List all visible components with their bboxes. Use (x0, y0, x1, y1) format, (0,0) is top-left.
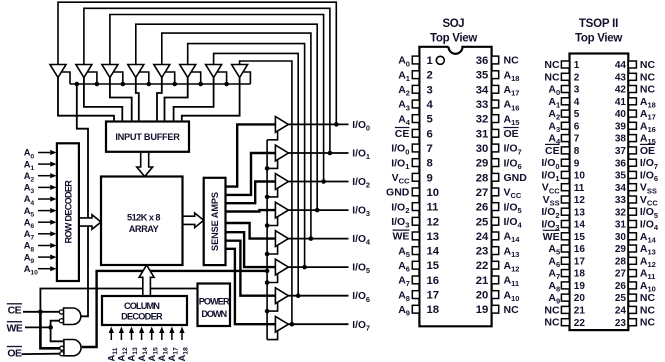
svg-text:35: 35 (476, 70, 489, 82)
svg-text:4: 4 (427, 99, 434, 111)
svg-text:OE: OE (504, 128, 519, 140)
svg-text:NC: NC (544, 71, 560, 83)
svg-text:36: 36 (476, 55, 489, 67)
svg-text:31: 31 (476, 128, 489, 140)
svg-text:21: 21 (476, 275, 489, 287)
svg-text:25: 25 (615, 293, 627, 304)
svg-text:10: 10 (427, 187, 440, 199)
svg-text:23: 23 (615, 318, 627, 329)
svg-text:CE: CE (545, 145, 560, 157)
svg-text:5: 5 (427, 114, 433, 126)
svg-text:DOWN: DOWN (201, 309, 227, 319)
svg-text:5: 5 (574, 109, 580, 120)
svg-text:NC: NC (640, 84, 656, 96)
svg-text:33: 33 (476, 99, 489, 111)
svg-text:NC: NC (640, 304, 656, 316)
svg-text:42: 42 (615, 85, 627, 96)
svg-text:NC: NC (640, 59, 656, 71)
svg-text:TSOP II: TSOP II (579, 18, 618, 30)
svg-text:COLUMN: COLUMN (124, 301, 160, 311)
svg-text:39: 39 (615, 121, 627, 132)
svg-text:18: 18 (427, 304, 440, 316)
svg-text:29: 29 (476, 158, 489, 170)
svg-text:13: 13 (427, 231, 440, 243)
svg-text:9: 9 (427, 172, 433, 184)
svg-text:43: 43 (615, 72, 627, 83)
svg-text:NC: NC (640, 71, 656, 83)
svg-text:7: 7 (427, 143, 433, 155)
svg-text:21: 21 (574, 306, 586, 317)
svg-text:8: 8 (427, 158, 433, 170)
svg-text:18: 18 (574, 269, 586, 280)
svg-text:Top View: Top View (430, 32, 477, 44)
svg-text:1: 1 (574, 60, 580, 71)
svg-text:14: 14 (427, 246, 440, 258)
svg-text:34: 34 (476, 84, 489, 96)
svg-text:CE: CE (8, 305, 22, 317)
svg-text:Top View: Top View (575, 32, 622, 44)
svg-text:CE: CE (395, 128, 410, 140)
svg-text:17: 17 (574, 256, 586, 267)
svg-text:20: 20 (574, 293, 586, 304)
svg-text:6: 6 (574, 121, 580, 132)
svg-text:22: 22 (476, 260, 489, 272)
svg-text:4: 4 (574, 97, 580, 108)
svg-text:ARRAY: ARRAY (129, 224, 159, 234)
svg-text:16: 16 (574, 244, 586, 255)
svg-text:34: 34 (615, 183, 627, 194)
svg-text:37: 37 (615, 146, 627, 157)
svg-text:NC: NC (504, 55, 520, 67)
svg-text:NC: NC (640, 292, 656, 304)
svg-text:24: 24 (476, 231, 489, 243)
svg-text:2: 2 (427, 70, 433, 82)
svg-text:NC: NC (640, 317, 656, 329)
svg-text:SOJ: SOJ (443, 18, 465, 30)
svg-text:19: 19 (476, 304, 489, 316)
svg-text:12: 12 (574, 195, 586, 206)
svg-text:INPUT BUFFER: INPUT BUFFER (115, 132, 180, 142)
svg-text:14: 14 (574, 220, 586, 231)
svg-text:9: 9 (574, 158, 580, 169)
svg-text:19: 19 (574, 281, 586, 292)
svg-text:17: 17 (427, 290, 440, 302)
svg-text:32: 32 (476, 114, 489, 126)
svg-text:12: 12 (427, 216, 440, 228)
svg-text:8: 8 (574, 146, 580, 157)
svg-text:13: 13 (574, 207, 586, 218)
svg-text:NC: NC (544, 317, 560, 329)
svg-text:24: 24 (615, 306, 627, 317)
svg-text:35: 35 (615, 171, 627, 182)
svg-text:44: 44 (615, 60, 627, 71)
svg-text:11: 11 (574, 183, 585, 194)
svg-text:SENSE AMPS: SENSE AMPS (210, 192, 220, 251)
svg-text:ROW DECODER: ROW DECODER (64, 180, 74, 244)
svg-text:15: 15 (427, 260, 440, 272)
svg-text:OE: OE (640, 145, 655, 157)
svg-text:11: 11 (427, 202, 439, 214)
svg-text:NC: NC (504, 304, 520, 316)
svg-text:33: 33 (615, 195, 627, 206)
svg-text:1: 1 (427, 55, 433, 67)
svg-text:OE: OE (7, 347, 22, 359)
svg-text:2: 2 (574, 72, 580, 83)
svg-text:40: 40 (615, 109, 627, 120)
svg-text:41: 41 (615, 97, 627, 108)
svg-text:23: 23 (476, 246, 489, 258)
svg-text:GND: GND (504, 172, 528, 184)
svg-text:WE: WE (392, 231, 409, 243)
svg-text:28: 28 (476, 172, 489, 184)
svg-text:28: 28 (615, 256, 627, 267)
svg-text:15: 15 (574, 232, 586, 243)
svg-text:3: 3 (427, 84, 433, 96)
svg-text:38: 38 (615, 134, 627, 145)
svg-text:25: 25 (476, 216, 489, 228)
svg-text:27: 27 (615, 269, 627, 280)
svg-text:3: 3 (574, 85, 580, 96)
svg-text:20: 20 (476, 290, 489, 302)
svg-text:27: 27 (476, 187, 489, 199)
svg-text:6: 6 (427, 128, 433, 140)
svg-text:31: 31 (615, 220, 627, 231)
svg-text:DECODER: DECODER (121, 312, 163, 322)
svg-text:30: 30 (476, 143, 489, 155)
svg-text:NC: NC (544, 59, 560, 71)
svg-text:26: 26 (476, 202, 489, 214)
svg-text:512K x 8: 512K x 8 (127, 213, 160, 223)
svg-text:32: 32 (615, 207, 627, 218)
svg-text:POWER: POWER (199, 297, 230, 307)
svg-text:30: 30 (615, 232, 627, 243)
svg-text:10: 10 (574, 171, 586, 182)
svg-text:36: 36 (615, 158, 627, 169)
svg-text:GND: GND (386, 187, 410, 199)
svg-text:WE: WE (543, 231, 560, 243)
svg-text:22: 22 (574, 318, 586, 329)
svg-text:16: 16 (427, 275, 440, 287)
svg-text:NC: NC (544, 304, 560, 316)
svg-text:7: 7 (574, 134, 580, 145)
svg-text:29: 29 (615, 244, 627, 255)
svg-text:WE: WE (6, 323, 22, 335)
svg-text:26: 26 (615, 281, 627, 292)
